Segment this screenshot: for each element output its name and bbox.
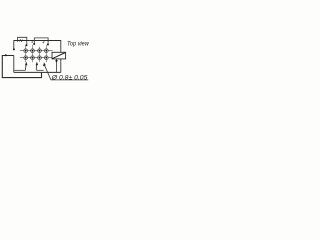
pin 5 — [24, 56, 28, 60]
pin 6 — [31, 56, 35, 60]
wire: shelf right — [36, 69, 43, 71]
pin 3 — [38, 49, 42, 53]
coil box diagonal — [52, 53, 65, 59]
node: junction dot on left edge — [13, 48, 15, 50]
contact arrow 2 — [36, 62, 38, 70]
wire: pin column line 2 — [32, 45, 34, 62]
pin 7 — [38, 56, 42, 60]
body outline right edge lower — [60, 59, 62, 73]
pin 1 — [24, 49, 28, 53]
coil box K1 — [52, 52, 66, 59]
pin 4 — [44, 49, 48, 53]
dimension leader line — [45, 65, 89, 80]
dimension leader arrowhead — [43, 62, 46, 66]
wire: pin row line bottom — [20, 57, 53, 59]
node: bracket dot pin col1 — [25, 44, 27, 46]
wire: pin column line 4 — [45, 45, 47, 62]
wire below coil box — [56, 59, 58, 73]
body outline bottom edge — [14, 71, 61, 73]
pin 2 — [31, 49, 35, 53]
wire: pin column line 1 — [25, 45, 27, 62]
flange outline bottom-left — [2, 56, 41, 78]
wire: pin column line 3 — [39, 47, 41, 62]
node: bracket dot pin col4 — [47, 44, 49, 46]
wire: shelf left — [14, 69, 25, 71]
node: bracket dot pin col2 — [33, 43, 35, 45]
svg-text:Ø 0.8± 0.05: Ø 0.8± 0.05 — [51, 74, 88, 81]
contact arrow 1 — [25, 62, 27, 71]
body outline right edge upper — [60, 40, 62, 52]
node: junction dot below coil box — [55, 60, 57, 62]
wire: pin row line top — [20, 50, 53, 52]
svg-text:Top view: Top view — [67, 41, 89, 48]
pin 8 — [44, 56, 48, 60]
body outline left edge upper — [13, 40, 15, 49]
bracket link 2 — [34, 38, 48, 44]
bracket link 1 — [18, 37, 27, 44]
body outline top edge — [14, 40, 61, 42]
body outline left edge lower — [13, 56, 15, 73]
node: junction dot on flange top edge — [5, 54, 7, 56]
